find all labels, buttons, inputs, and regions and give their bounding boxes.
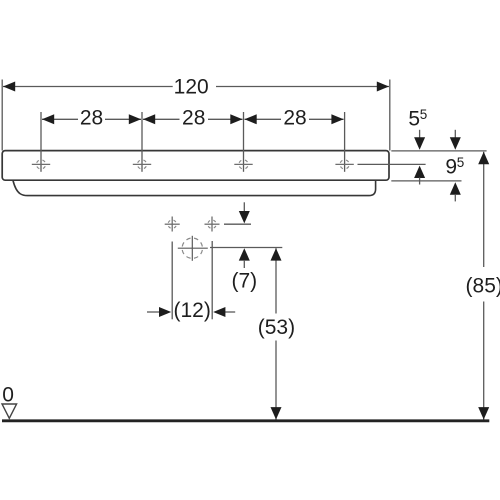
fixing hole extension line left bbox=[171, 242, 173, 320]
dimension (7) : lower arrow bbox=[239, 248, 250, 260]
svg-text:5: 5 bbox=[420, 107, 428, 122]
svg-text:(12): (12) bbox=[174, 299, 211, 322]
dimension 28 (segment 2) : dimension line bbox=[143, 118, 180, 120]
extension line through tap hole centers (right) bbox=[358, 163, 426, 165]
dimension 28 (segment 3) : dimension line bbox=[245, 118, 282, 120]
dimension (53) : bottom arrowhead bbox=[271, 407, 282, 419]
dimension 28 (segment 3) : arrowheads bbox=[245, 114, 257, 124]
svg-text:120: 120 bbox=[174, 76, 209, 99]
fixing hole extension line right bbox=[211, 241, 213, 319]
svg-text:28: 28 bbox=[283, 106, 306, 129]
tap hole cross 3 bbox=[234, 160, 252, 169]
dimension 120 : extension line right bbox=[389, 80, 391, 151]
tap hole extension line 2 bbox=[141, 112, 143, 172]
floor line bbox=[2, 419, 489, 422]
dimension 5.5 : lower arrow bbox=[414, 166, 425, 178]
svg-text:9: 9 bbox=[445, 155, 457, 178]
svg-text:0: 0 bbox=[2, 384, 14, 407]
washbasin body (front view) bbox=[2, 151, 389, 181]
dimension (53) : top arrowhead bbox=[271, 248, 282, 260]
tap hole cross 2 bbox=[133, 160, 151, 169]
dimension (7) : reference line at drain center bbox=[210, 247, 282, 249]
tap hole extension line 4 bbox=[344, 112, 346, 172]
dimension 5.5 : upper arrow bbox=[419, 130, 421, 138]
dimension (85) : bottom arrowhead bbox=[478, 407, 489, 419]
svg-text:(53): (53) bbox=[258, 316, 295, 339]
dimension (12) : dimension line tails bbox=[147, 311, 160, 313]
dimension 120 : right arrowhead bbox=[377, 82, 389, 92]
extension line off basin bottom edge (right) bbox=[391, 180, 461, 182]
dimension (7) : upper arrow bbox=[243, 202, 245, 212]
drain hole crosshair vertical bbox=[191, 236, 193, 261]
svg-text:28: 28 bbox=[80, 106, 103, 129]
tap hole extension line 1 bbox=[40, 112, 42, 172]
dimension 28 (segment 1) : arrowheads bbox=[42, 114, 54, 124]
svg-text:5: 5 bbox=[457, 155, 465, 170]
dimension (85) : dimension line bbox=[483, 152, 485, 267]
dimension 28 (segment 2) : arrowheads bbox=[143, 114, 155, 124]
dimension 28 (segment 1) : dimension line bbox=[42, 118, 78, 120]
tap hole cross 1 bbox=[32, 160, 50, 169]
datum level triangle symbol bbox=[2, 404, 17, 418]
dimension (12) : arrowheads bbox=[159, 307, 171, 317]
fixing hole cross left bbox=[165, 217, 180, 232]
dimension 120 : dimension line bbox=[3, 86, 173, 88]
svg-text:(7): (7) bbox=[231, 269, 257, 292]
svg-text:(85): (85) bbox=[466, 274, 500, 297]
drain hole dashed circle bbox=[182, 238, 202, 258]
dimension 120 : left arrowhead bbox=[3, 82, 15, 92]
dimension 120 : extension line left bbox=[1, 80, 3, 151]
dimension (85) : top arrowhead bbox=[478, 152, 489, 164]
drain hole crosshair horizontal bbox=[178, 247, 208, 249]
dimension 9.5 : upper arrow bbox=[454, 130, 456, 138]
dimension (7) : reference line at fixing holes bbox=[224, 223, 251, 225]
dimension (53) : dimension line bbox=[275, 248, 277, 313]
extension line off basin top edge (right) bbox=[391, 150, 486, 152]
dimension 9.5 : lower arrow bbox=[450, 182, 461, 194]
svg-text:5: 5 bbox=[408, 107, 420, 130]
svg-text:28: 28 bbox=[182, 106, 205, 129]
fixing hole cross right bbox=[205, 217, 220, 232]
tap hole extension line 3 bbox=[243, 112, 245, 172]
washbasin apron / lower skirt bbox=[13, 181, 376, 196]
tap hole cross 4 bbox=[335, 160, 353, 169]
